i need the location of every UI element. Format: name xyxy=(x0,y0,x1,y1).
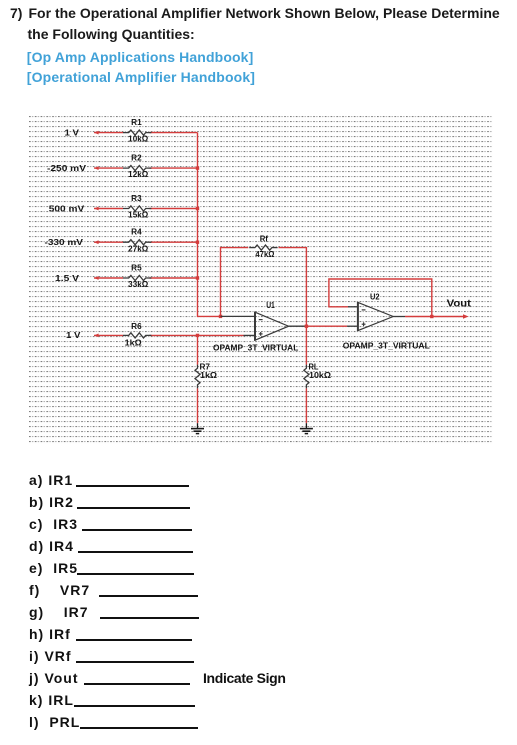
svg-text:Vout: Vout xyxy=(447,299,472,310)
wire R1 row xyxy=(94,132,198,134)
svg-text:OPAMP_3T_VIRTUAL: OPAMP_3T_VIRTUAL xyxy=(213,343,298,353)
label R5 xyxy=(131,263,142,272)
node junction bus-R3 xyxy=(196,207,199,210)
node junction U2out-feedback xyxy=(430,315,433,318)
label R1 xyxy=(131,118,142,127)
value 15kΩ xyxy=(128,211,149,220)
svg-text:33kΩ: 33kΩ xyxy=(128,280,149,289)
svg-text:U1: U1 xyxy=(266,301,275,310)
svg-text:R4: R4 xyxy=(131,228,142,237)
wire U1 noninverting input stub xyxy=(244,334,256,336)
node junction R6-R7 xyxy=(196,334,199,337)
label R7 xyxy=(200,363,211,372)
source label 1 V (row6) xyxy=(66,331,81,340)
wire R3 row xyxy=(94,208,198,210)
value 1kΩ (R7) xyxy=(200,371,218,380)
svg-text:Rf: Rf xyxy=(260,235,269,244)
resistor RL xyxy=(304,365,309,389)
node junction bus-R5 xyxy=(196,276,199,279)
question list xyxy=(29,473,73,487)
svg-text:1 V: 1 V xyxy=(66,331,81,340)
header text xyxy=(10,4,22,22)
svg-text:R3: R3 xyxy=(131,194,142,203)
source label -250 mV xyxy=(47,164,87,173)
label R4 xyxy=(131,228,142,237)
value 47kΩ xyxy=(255,250,275,259)
resistor Rf xyxy=(249,245,277,250)
resistor R5 xyxy=(123,275,151,280)
svg-text:15kΩ: 15kΩ xyxy=(128,211,149,220)
label RL xyxy=(309,363,319,372)
resistor R3 xyxy=(123,206,151,211)
node input arrow 1V row1 xyxy=(94,131,99,135)
wire R5 row xyxy=(94,277,198,279)
wire U2 output to Vout xyxy=(405,316,463,318)
resistor R4 xyxy=(123,240,151,245)
op-amp U1 xyxy=(255,312,289,341)
svg-text:-330 mV: -330 mV xyxy=(45,238,84,247)
label Vout xyxy=(447,299,472,310)
resistor R2 xyxy=(123,166,151,171)
svg-text:R6: R6 xyxy=(131,322,142,331)
label U2 xyxy=(370,292,380,301)
node junction Rf-businput xyxy=(219,315,222,318)
svg-text:500 mV: 500 mV xyxy=(49,204,85,213)
label R6 xyxy=(131,322,142,331)
resistor R7 xyxy=(195,365,200,389)
resistor R1 xyxy=(123,130,151,135)
wire U2 inverting stub xyxy=(348,306,358,308)
value 10kΩ xyxy=(128,135,149,144)
node input arrow 1.5V row5 xyxy=(94,276,99,280)
svg-text:U2: U2 xyxy=(370,292,380,301)
svg-text:R1: R1 xyxy=(131,118,142,127)
node input arrow -250mV row2 xyxy=(94,166,99,170)
wire U1 inverting input stub xyxy=(221,315,256,317)
svg-text:1kΩ: 1kΩ xyxy=(125,339,143,348)
wire R7 vertical xyxy=(197,335,199,423)
source label -330 mV xyxy=(45,238,84,247)
wire R2 row xyxy=(94,167,198,169)
value 10kΩ (RL) xyxy=(309,371,332,380)
op-amp U2 xyxy=(358,302,393,331)
svg-text:-250 mV: -250 mV xyxy=(47,164,87,173)
svg-text:R5: R5 xyxy=(131,263,142,272)
source label 1 V xyxy=(65,128,80,137)
label R2 xyxy=(131,154,142,163)
wire U2 output stub xyxy=(393,316,405,318)
node Vout arrow xyxy=(463,314,469,318)
wire RL vertical xyxy=(305,326,307,423)
value 33kΩ xyxy=(128,280,149,289)
label U1 xyxy=(266,301,275,310)
svg-text:10kΩ: 10kΩ xyxy=(309,371,332,380)
svg-text:OPAMP_3T_VIRTUAL: OPAMP_3T_VIRTUAL xyxy=(343,340,430,350)
wire summing bus vertical xyxy=(198,133,221,317)
value 12kΩ xyxy=(128,170,149,179)
node input arrow 1V row6 xyxy=(94,334,99,338)
label OPAMP_3T_VIRTUAL U1 xyxy=(213,343,298,353)
node junction bus-R2 xyxy=(196,166,199,169)
source label 500 mV xyxy=(49,204,85,213)
node junction U1out-Rf-RL xyxy=(305,325,308,328)
schematic canvas xyxy=(29,116,493,444)
svg-text:27kΩ: 27kΩ xyxy=(128,244,149,253)
wire Rf feedback loop xyxy=(221,248,307,327)
resistor R6 xyxy=(123,333,151,338)
svg-text:47kΩ: 47kΩ xyxy=(255,250,275,259)
label OPAMP_3T_VIRTUAL U2 xyxy=(343,340,430,350)
label Rf xyxy=(260,235,269,244)
ground RL xyxy=(300,423,313,433)
svg-text:1 V: 1 V xyxy=(65,128,80,137)
svg-text:1kΩ: 1kΩ xyxy=(200,371,218,380)
label R3 xyxy=(131,194,142,203)
wire R4 row xyxy=(94,241,198,243)
node input arrow -330mV row4 xyxy=(94,240,99,244)
ground R7 xyxy=(191,423,204,433)
svg-text:10kΩ: 10kΩ xyxy=(128,135,149,144)
wire R6 row xyxy=(94,334,244,336)
svg-text:R2: R2 xyxy=(131,154,142,163)
wire U2 feedback loop xyxy=(329,279,432,317)
value 1kΩ xyxy=(125,339,143,348)
node input arrow 500mV row3 xyxy=(94,207,99,211)
value 27kΩ xyxy=(128,244,149,253)
wire U1out to U2+ xyxy=(306,325,358,327)
svg-text:12kΩ: 12kΩ xyxy=(128,170,149,179)
wire U1 output stub xyxy=(289,325,307,327)
svg-text:1.5 V: 1.5 V xyxy=(55,274,80,283)
source label 1.5 V xyxy=(55,274,80,283)
node junction bus-R4 xyxy=(196,241,199,244)
